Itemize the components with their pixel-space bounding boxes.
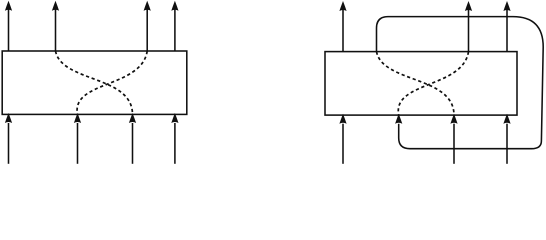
dashed strand A' (right box, top-left to bottom-right) bbox=[377, 52, 455, 116]
wire: right box bottom input 3 bbox=[506, 124, 508, 164]
box G (right diagram) bbox=[325, 52, 517, 116]
wire: left box top output 1 bbox=[8, 9, 10, 51]
wire: left box bottom input 3 bbox=[132, 123, 134, 164]
wire: right box top output 3 bbox=[506, 10, 508, 52]
box F (left diagram) bbox=[2, 51, 187, 114]
dashed strand B (left box, top-right to bottom-left) bbox=[77, 51, 147, 114]
dashed strand B' (right box, top-right to bottom-left) bbox=[398, 52, 468, 116]
feedback loop wire (trace) bbox=[377, 17, 544, 149]
arrowhead of feedback loop entering box bottom bbox=[395, 114, 402, 124]
wire: right box bottom input 1 bbox=[342, 124, 344, 164]
wire: right box top output 1 bbox=[342, 10, 344, 52]
wire: left box bottom input 2 bbox=[77, 123, 79, 164]
wire: left box top output 4 bbox=[174, 9, 176, 51]
wire: left box top output 2 bbox=[55, 9, 57, 51]
wire: right box bottom input 2 bbox=[453, 124, 455, 164]
wire: left box top output 3 bbox=[146, 9, 148, 51]
wire: left box bottom input 4 bbox=[174, 123, 176, 164]
wire: right box top output 2 bbox=[468, 10, 470, 52]
dashed strand A (left box, top-left to bottom-right) bbox=[56, 51, 133, 114]
wire: left box bottom input 1 bbox=[8, 123, 10, 164]
